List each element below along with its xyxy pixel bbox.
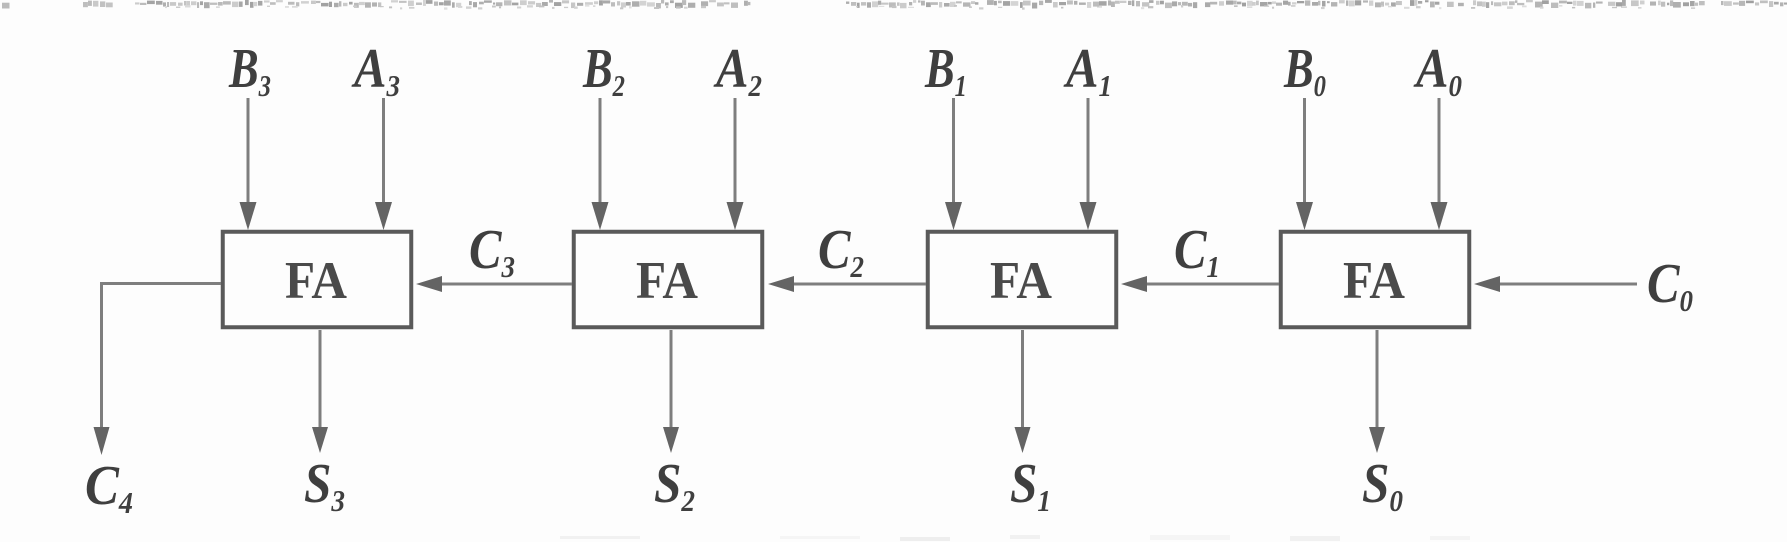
full adder FA bit3 U3 [223, 232, 412, 328]
svg-text:FA: FA [636, 252, 698, 310]
svg-text:B2: B2 [582, 38, 625, 103]
svg-text:A3: A3 [351, 38, 400, 103]
full adder FA bit1 U1 [928, 232, 1117, 328]
svg-text:S1: S1 [1010, 453, 1051, 518]
full adder FA bit0 U0 [1281, 232, 1470, 328]
wire S3 sum output [312, 330, 328, 453]
wire C4 carry-out [94, 284, 222, 456]
wire A3 input [375, 98, 392, 230]
wire C2 carry [768, 276, 926, 292]
svg-text:B0: B0 [1283, 38, 1326, 103]
wire A2 input [727, 98, 744, 230]
svg-text:FA: FA [990, 252, 1052, 310]
wire C1 carry [1121, 276, 1279, 292]
wire A0 input [1431, 98, 1448, 230]
wire B1 input [945, 98, 962, 230]
svg-text:B3: B3 [228, 38, 271, 103]
wire C3 carry [416, 276, 572, 292]
wire A1 input [1080, 98, 1097, 230]
svg-text:C4: C4 [85, 455, 133, 520]
wire B0 input [1296, 98, 1313, 230]
svg-text:S3: S3 [304, 453, 345, 518]
wire B3 input [240, 98, 257, 230]
svg-text:C2: C2 [818, 219, 864, 284]
svg-text:S2: S2 [654, 453, 695, 518]
svg-text:C1: C1 [1174, 219, 1220, 284]
svg-text:FA: FA [285, 252, 347, 310]
wire S0 sum output [1369, 330, 1385, 453]
svg-text:S0: S0 [1362, 453, 1403, 518]
svg-text:FA: FA [1343, 252, 1405, 310]
svg-text:C0: C0 [1647, 253, 1693, 318]
wire S1 sum output [1015, 330, 1031, 453]
svg-text:B1: B1 [924, 38, 967, 103]
svg-text:C3: C3 [469, 219, 515, 284]
wire C0 carry-in [1474, 276, 1637, 292]
svg-text:A0: A0 [1413, 38, 1462, 103]
wire S2 sum output [663, 330, 679, 453]
full adder FA bit2 U2 [574, 232, 763, 328]
svg-text:A1: A1 [1063, 38, 1112, 103]
svg-text:A2: A2 [713, 38, 762, 103]
wire B2 input [592, 98, 609, 230]
